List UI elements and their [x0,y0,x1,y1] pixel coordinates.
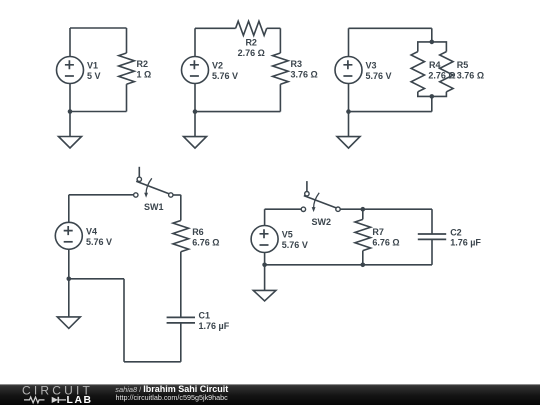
node [193,109,198,114]
wire [123,279,125,362]
wire [70,111,127,113]
node [430,94,435,99]
wire [264,209,266,225]
svg-text:5.76 V: 5.76 V [212,71,238,81]
wire [173,194,181,196]
wire [340,208,363,210]
svg-text:R2: R2 [245,38,257,48]
wire [348,28,350,56]
wire [69,278,124,280]
svg-text:R3: R3 [291,59,303,69]
resistor R2 [236,21,267,35]
svg-text:http://circuitlab.com/c595g5jk: http://circuitlab.com/c595g5jk9habc [116,393,229,402]
svg-text:R7: R7 [372,227,384,237]
svg-text:SW2: SW2 [312,217,332,227]
wire [69,28,71,57]
wire [180,252,182,318]
svg-text:LAB: LAB [67,395,93,405]
resistor R2 [119,28,135,112]
svg-text:5.76 V: 5.76 V [86,237,112,247]
wire [264,253,266,265]
svg-text:2.76 Ω: 2.76 Ω [238,48,265,58]
svg-text:R6: R6 [192,227,204,237]
svg-text:1.76 µF: 1.76 µF [199,321,230,331]
wire [195,111,280,113]
wire [194,28,196,56]
wire [431,28,433,42]
switch SW1 [134,167,173,198]
wire [180,323,182,362]
wire [265,208,302,210]
wire [69,194,134,196]
resistor R7 [355,209,371,265]
wire [349,27,432,29]
voltage source V1 [57,57,84,84]
svg-text:3.76 Ω: 3.76 Ω [291,69,318,79]
wire [349,111,432,113]
capacitor C1 [167,317,195,323]
svg-text:6.76 Ω: 6.76 Ω [192,237,219,247]
wire [194,84,196,112]
svg-text:V2: V2 [212,61,223,71]
node [346,109,351,114]
ground [59,112,82,149]
svg-text:SW1: SW1 [144,202,164,212]
switch SW2 [301,181,340,212]
wire [431,96,433,111]
ground [337,112,360,149]
voltage source V4 [55,222,82,249]
node [68,109,73,114]
svg-text:1.76 µF: 1.76 µF [450,238,481,248]
node [361,263,366,268]
svg-text:V1: V1 [87,61,98,71]
node [67,277,72,282]
svg-text:1 Ω: 1 Ω [137,69,152,79]
ground [184,112,207,149]
svg-text:V3: V3 [366,61,377,71]
wire [68,195,70,223]
node [262,263,267,268]
voltage source V2 [182,57,209,84]
wire [431,209,433,234]
wire [431,239,433,264]
svg-text:5.76 V: 5.76 V [282,240,308,250]
wire [70,27,127,29]
voltage source V3 [335,57,362,84]
svg-text:C1: C1 [199,311,211,321]
wire [69,84,71,112]
capacitor C2 [418,234,446,239]
svg-text:5.76 V: 5.76 V [366,71,392,81]
wire [68,249,70,278]
svg-text:C2: C2 [450,227,462,237]
node [430,40,435,45]
resistor R4 [411,42,432,97]
svg-text:R5: R5 [457,60,469,70]
svg-text:V5: V5 [282,230,293,240]
wire [267,27,281,29]
resistor R3 [273,28,289,111]
resistor R5 [432,42,453,97]
svg-text:V4: V4 [86,227,97,237]
ground [57,279,80,329]
wire [348,84,350,112]
wire [265,264,432,266]
voltage source V5 [251,226,278,253]
ground [0,265,540,405]
svg-text:6.76 Ω: 6.76 Ω [372,237,399,247]
wire [363,208,432,210]
svg-text:R2: R2 [137,59,149,69]
wire [195,27,236,29]
svg-text:3.76 Ω: 3.76 Ω [457,71,484,81]
logo schematic squiggle (resistor + diode) [24,397,66,403]
node [361,207,366,212]
wire [124,361,181,363]
svg-text:5 V: 5 V [87,71,101,81]
resistor R6 [173,195,189,252]
